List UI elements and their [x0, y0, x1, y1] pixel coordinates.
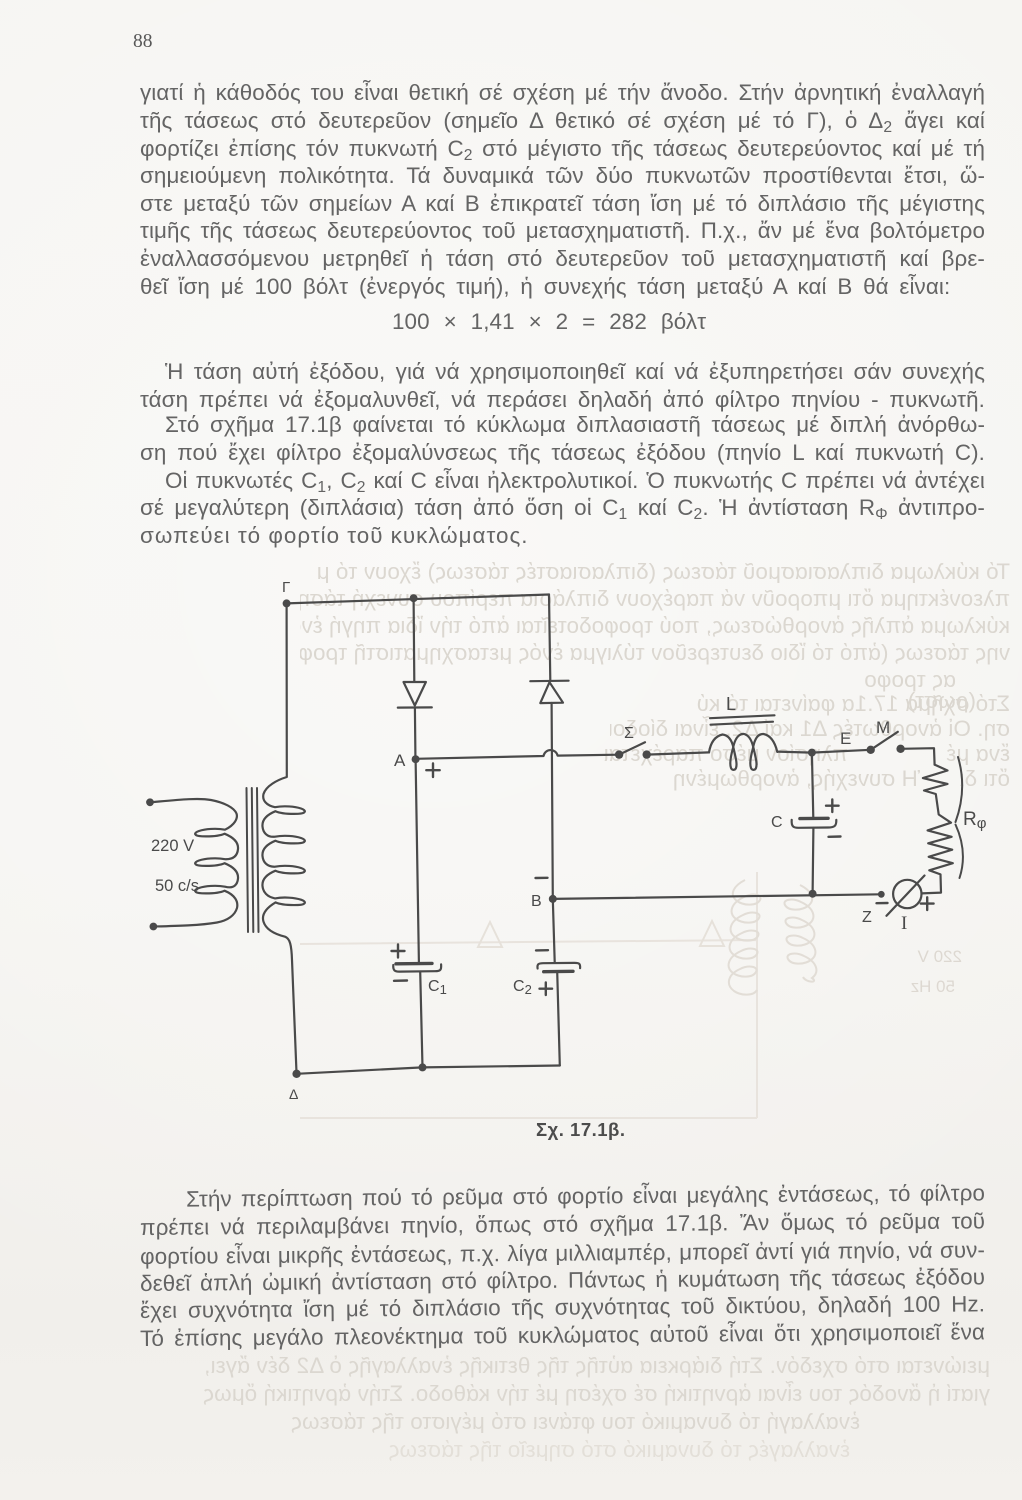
svg-text:Σ: Σ: [624, 725, 634, 742]
node E: [808, 749, 816, 757]
wire D2 branch from top corner: [549, 595, 550, 681]
svg-text:C1: C1: [428, 978, 447, 997]
svg-text:Z: Z: [862, 909, 872, 926]
diode D1: [398, 682, 432, 708]
junction dot top of D1 branch: [410, 594, 418, 602]
transformer core: [247, 788, 259, 932]
figure caption: [536, 1119, 625, 1141]
svg-text:I: I: [901, 913, 907, 934]
svg-text:220 V: 220 V: [151, 837, 194, 855]
formula: [392, 311, 706, 333]
wire C2 to bottom rail: [557, 972, 560, 1066]
bleed-through ghost text (verso page, mirrored): [316, 559, 1010, 585]
label minus above B: [536, 877, 548, 880]
capacitor C: [792, 818, 837, 828]
svg-text:M: M: [876, 718, 890, 737]
label + at C: [826, 800, 839, 813]
wire C1 to bottom rail: [420, 972, 422, 1068]
svg-text:L: L: [726, 694, 736, 714]
transformer primary winding with leads: [150, 799, 238, 927]
label + at node A: [426, 764, 439, 778]
svg-text:Rφ: Rφ: [963, 809, 987, 832]
inductor L (filter choke): [709, 734, 777, 770]
node A: [412, 755, 420, 763]
wire D1 cathode to node A: [414, 708, 417, 756]
wire top rail Γ to D2 corner: [287, 595, 549, 604]
wire E down to capacitor C: [812, 753, 813, 818]
label plus at ammeter: [921, 897, 934, 910]
wire Σ to inductor L: [647, 752, 709, 754]
wire E to switch M: [812, 750, 871, 753]
junction dot C bottom: [809, 890, 817, 898]
primary terminal dot top: [146, 798, 154, 806]
paragraph 3: [140, 1183, 985, 1212]
junction dot bottom of C1: [419, 1063, 427, 1071]
page number: [133, 31, 153, 53]
core lines of L: [710, 715, 775, 724]
wire L to E: [777, 752, 812, 753]
switch M: [867, 732, 905, 754]
label + at C1: [392, 945, 405, 958]
svg-text:Γ: Γ: [282, 579, 290, 596]
capacitor C2: [537, 963, 580, 972]
wire node A to switch Σ with crossover hump: [416, 750, 619, 759]
ammeter left terminal dot: [878, 891, 885, 898]
wire D1 anode branch: [413, 598, 416, 681]
svg-text:C: C: [771, 814, 783, 831]
paragraph 2: [140, 361, 985, 383]
svg-text:Δ: Δ: [289, 1086, 298, 1102]
svg-text:B: B: [531, 893, 542, 910]
wire B row (B to ammeter): [553, 894, 882, 899]
primary terminal dot bottom: [150, 923, 158, 931]
node Γ: [283, 599, 291, 607]
svg-text:E: E: [840, 729, 851, 748]
wire node A down to capacitor C1: [416, 759, 419, 962]
paragraph 1: [140, 82, 985, 104]
brace of Rφ: [956, 757, 963, 878]
switch Σ: [615, 742, 651, 759]
label minus at C: [829, 835, 841, 838]
bottom rail Δ to C2 branch: [297, 1066, 560, 1074]
resistor Rφ (load) zigzag: [922, 765, 953, 894]
diode D2: [530, 681, 568, 703]
label + at C2: [540, 983, 553, 996]
capacitor C1: [393, 963, 441, 971]
label minus at ammeter: [877, 902, 888, 905]
svg-text:C2: C2: [513, 978, 532, 997]
label minus at C1: [394, 979, 407, 982]
transformer secondary winding (Γ down to Δ): [262, 603, 304, 1070]
wire capacitor C to B row: [811, 828, 814, 894]
wire B down to capacitor C2: [553, 899, 555, 962]
svg-text:50 c/s: 50 c/s: [155, 877, 199, 895]
node B: [549, 895, 557, 903]
wire M to resistor corner: [901, 748, 935, 764]
ammeter I: [887, 876, 925, 916]
node Δ: [292, 1070, 300, 1078]
label minus above C2: [536, 949, 548, 952]
svg-text:A: A: [394, 751, 406, 770]
wire D2 anode down to node B: [552, 703, 553, 899]
